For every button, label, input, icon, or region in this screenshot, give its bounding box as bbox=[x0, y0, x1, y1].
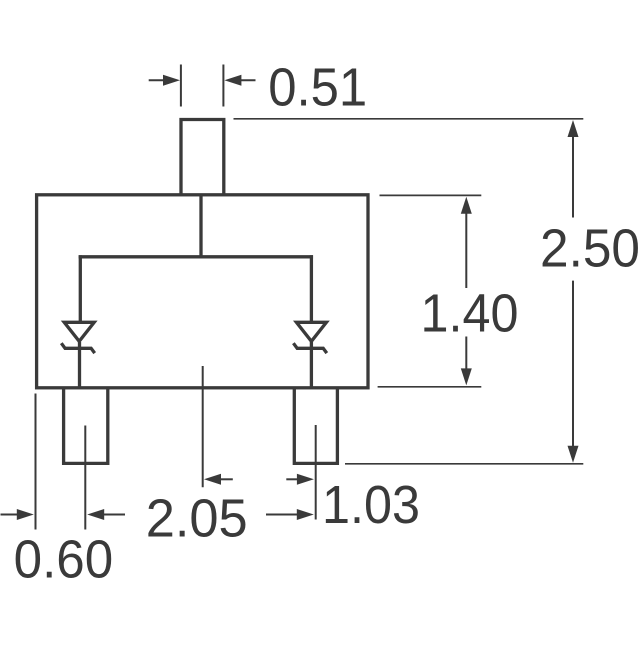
reference line: pin bottom for 2.50 bbox=[345, 463, 583, 465]
2.05 right-pointing arrowhead bbox=[297, 509, 314, 520]
2.05 right arrow tail bbox=[266, 514, 298, 516]
0.51 left arrow tail bbox=[149, 79, 166, 81]
0.60 right-pointing arrowhead bbox=[17, 509, 34, 520]
svg-text:2.50: 2.50 bbox=[540, 220, 640, 279]
1.40 up arrowhead bbox=[461, 197, 472, 214]
svg-text:1.03: 1.03 bbox=[322, 476, 420, 535]
pin 1 (bottom-left lead) bbox=[64, 388, 108, 463]
1.40 dimension line lower segment bbox=[465, 337, 467, 372]
2.50 up arrowhead bbox=[568, 120, 579, 137]
0.51 right arrow tail bbox=[239, 79, 256, 81]
1.03 right arrow tail bbox=[286, 478, 299, 480]
wire rail to left diode anode bbox=[79, 255, 82, 321]
wire from top pin to common rail bbox=[199, 196, 202, 258]
wire rail to right diode anode bbox=[310, 255, 313, 321]
zener diode D1 triangle (left) bbox=[64, 322, 94, 341]
zener diode D2 cathode bar (right) bbox=[293, 343, 326, 353]
reference line: pin top for 2.50 bbox=[234, 118, 584, 120]
pin 3 (top lead) bbox=[181, 120, 224, 197]
extension line: right pin centre (1.03/2.05) bbox=[315, 425, 317, 520]
2.50 dimension line upper segment bbox=[572, 134, 574, 218]
package body outline bbox=[37, 195, 368, 388]
0.51 right arrowhead bbox=[224, 75, 241, 86]
0.51 left arrowhead bbox=[163, 75, 180, 86]
extension line: top pin left edge (0.51) bbox=[180, 65, 182, 107]
0.60 arrow tail bbox=[1, 514, 20, 516]
zener diode D1 cathode bar (left) bbox=[61, 343, 94, 353]
1.03 left arrow tail bbox=[219, 478, 233, 480]
reference line: body bottom for 1.40 bbox=[378, 386, 482, 388]
2.50 down arrowhead bbox=[568, 446, 579, 463]
1.03 right-pointing arrowhead bbox=[297, 474, 314, 485]
2.05 left arrow tail bbox=[102, 514, 125, 516]
2.05 left-pointing arrowhead bbox=[87, 509, 104, 520]
1.03 left-pointing arrowhead bbox=[204, 474, 221, 485]
wire common top rail bbox=[79, 255, 313, 258]
extension line: body left edge (0.60) bbox=[35, 394, 37, 530]
extension line: body centre (2.05/1.03) bbox=[202, 366, 204, 487]
svg-text:1.40: 1.40 bbox=[421, 285, 519, 344]
svg-text:0.51: 0.51 bbox=[268, 58, 367, 117]
svg-text:2.05: 2.05 bbox=[146, 490, 248, 549]
zener diode D2 triangle (right) bbox=[296, 322, 326, 341]
1.40 dimension line upper segment bbox=[465, 211, 467, 288]
svg-text:0.60: 0.60 bbox=[14, 530, 114, 589]
reference line: body top for 1.40 bbox=[380, 194, 482, 196]
1.40 down arrowhead bbox=[461, 368, 472, 385]
2.50 dimension line lower segment bbox=[572, 281, 574, 449]
wire left diode cathode to body bottom bbox=[78, 342, 81, 388]
extension line: left pin centre (2.05/0.60) bbox=[84, 426, 86, 530]
wire right diode cathode to body bottom bbox=[310, 342, 313, 388]
pin 2 (bottom-right lead) bbox=[294, 388, 337, 463]
extension line: top pin right edge (0.51) bbox=[222, 65, 224, 107]
